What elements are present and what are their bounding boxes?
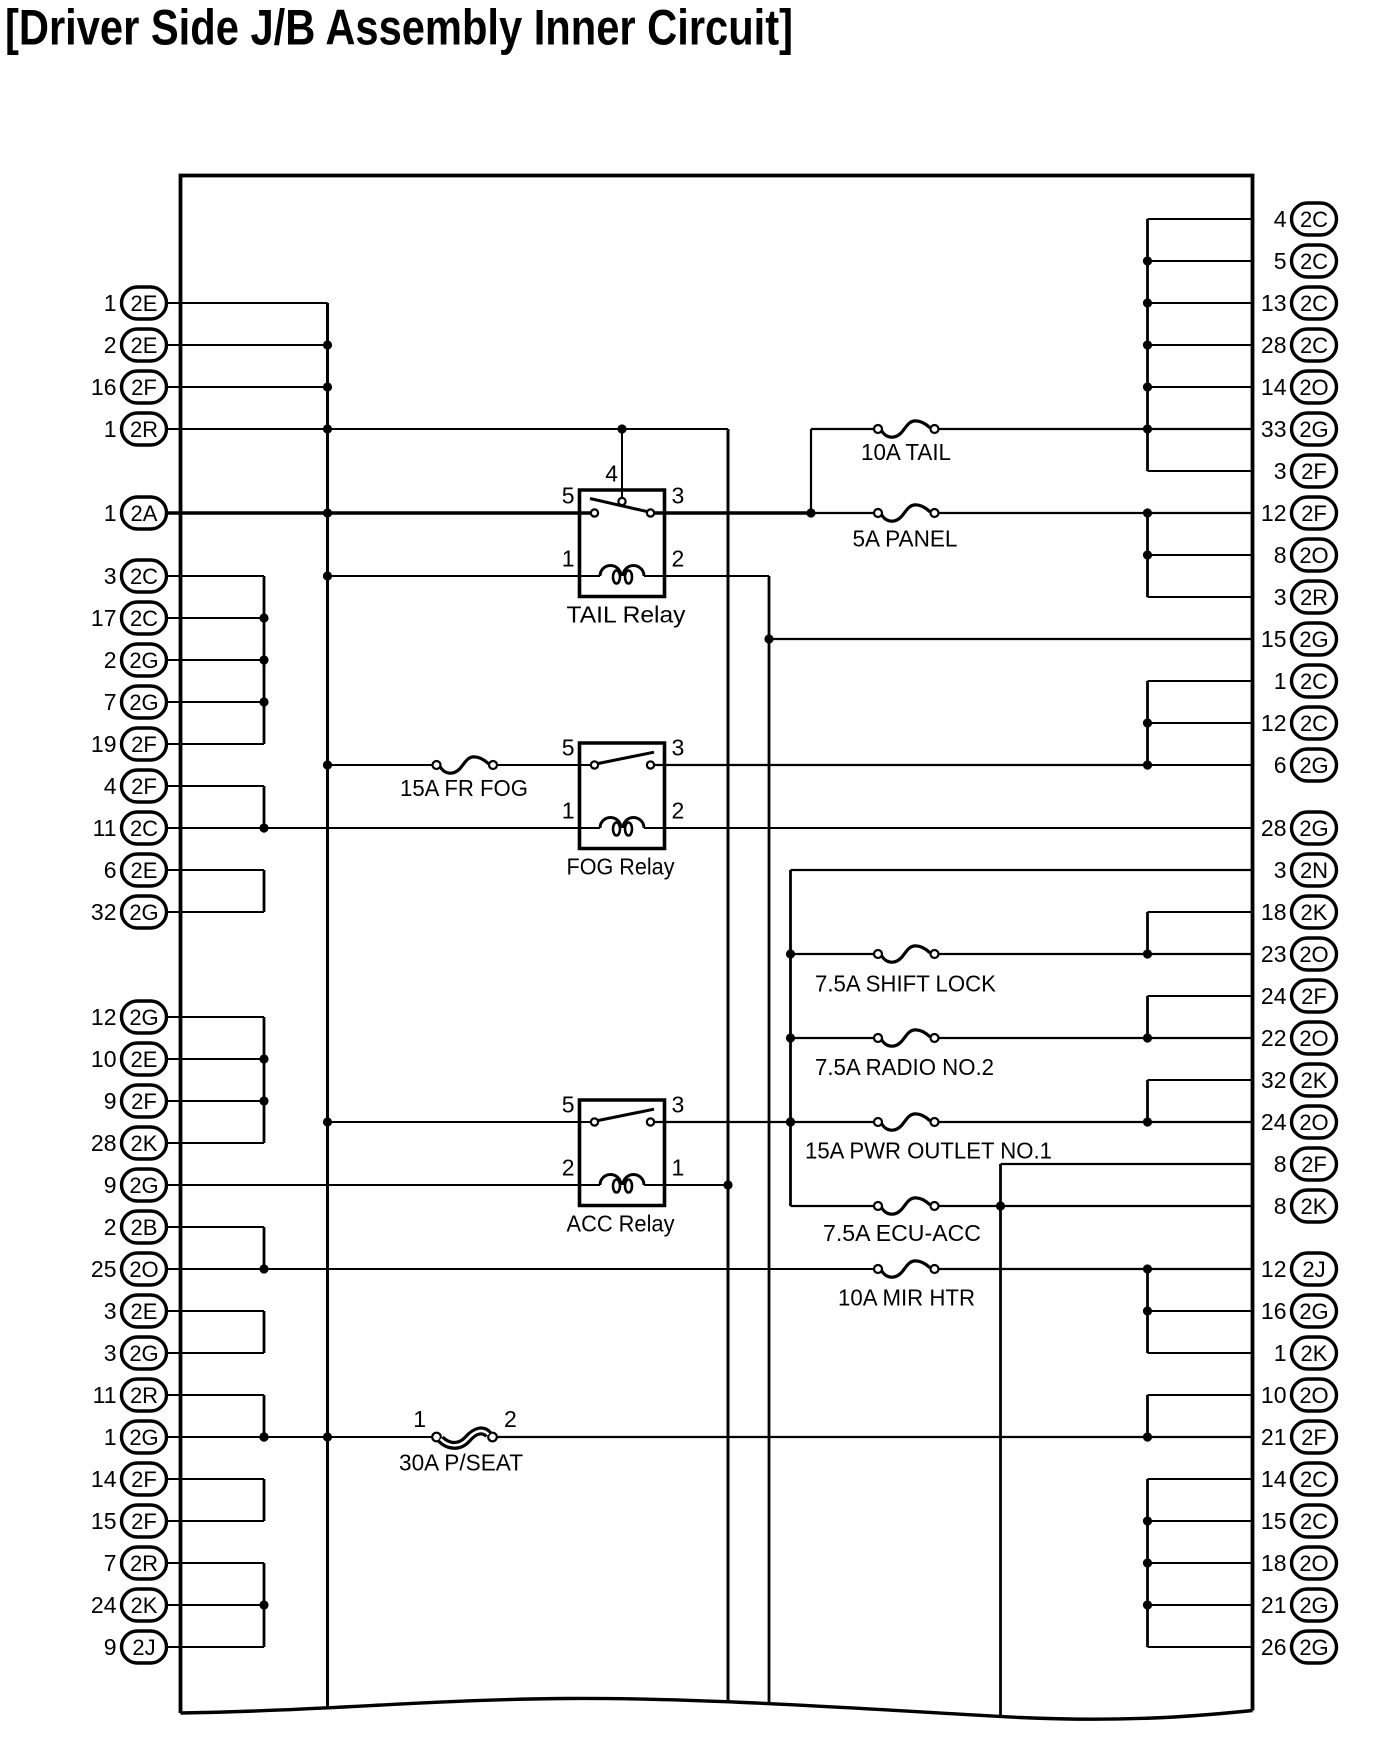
svg-text:2A: 2A	[131, 501, 158, 526]
svg-text:2G: 2G	[129, 690, 158, 715]
svg-text:1: 1	[1274, 668, 1287, 694]
svg-text:3: 3	[672, 735, 685, 761]
svg-text:2F: 2F	[131, 1509, 157, 1534]
svg-text:5: 5	[562, 1092, 575, 1118]
svg-text:33: 33	[1261, 416, 1287, 442]
svg-text:3: 3	[104, 1298, 117, 1324]
svg-text:2C: 2C	[1300, 1467, 1328, 1492]
svg-text:15: 15	[91, 1508, 117, 1534]
svg-text:2G: 2G	[129, 1005, 158, 1030]
svg-text:2G: 2G	[1299, 1299, 1328, 1324]
svg-text:15: 15	[1261, 626, 1287, 652]
svg-text:9: 9	[104, 1634, 117, 1660]
svg-text:1: 1	[1274, 1340, 1287, 1366]
svg-text:2O: 2O	[1299, 1551, 1328, 1576]
svg-text:1: 1	[672, 1155, 685, 1181]
svg-text:2R: 2R	[1300, 585, 1328, 610]
svg-text:1: 1	[104, 290, 117, 316]
svg-text:1: 1	[562, 798, 575, 824]
svg-text:7: 7	[104, 1550, 117, 1576]
svg-text:11: 11	[93, 815, 117, 841]
svg-text:8: 8	[1274, 542, 1287, 568]
svg-text:2: 2	[562, 1155, 575, 1181]
svg-text:2K: 2K	[131, 1131, 158, 1156]
svg-text:13: 13	[1261, 290, 1287, 316]
svg-text:2O: 2O	[129, 1257, 158, 1282]
svg-text:22: 22	[1261, 1025, 1287, 1051]
svg-text:6: 6	[1274, 752, 1287, 778]
svg-text:2C: 2C	[1300, 291, 1328, 316]
svg-text:2F: 2F	[131, 732, 157, 757]
svg-text:2O: 2O	[1299, 1383, 1328, 1408]
svg-text:2O: 2O	[1299, 375, 1328, 400]
svg-text:30A P/SEAT: 30A P/SEAT	[399, 1450, 523, 1476]
svg-text:2G: 2G	[1299, 417, 1328, 442]
svg-text:24: 24	[1261, 983, 1287, 1009]
svg-text:21: 21	[1261, 1592, 1287, 1618]
svg-text:2R: 2R	[130, 417, 158, 442]
svg-text:2E: 2E	[131, 291, 158, 316]
svg-text:[Driver Side J/B Assembly Inne: [Driver Side J/B Assembly Inner Circuit]	[5, 0, 793, 56]
svg-text:15A FR FOG: 15A FR FOG	[400, 775, 528, 801]
svg-text:24: 24	[91, 1592, 117, 1618]
svg-text:12: 12	[1261, 500, 1287, 526]
svg-text:2C: 2C	[1300, 333, 1328, 358]
svg-text:2C: 2C	[130, 816, 158, 841]
svg-text:2F: 2F	[1301, 984, 1327, 1009]
svg-text:18: 18	[1261, 1550, 1287, 1576]
svg-text:2O: 2O	[1299, 942, 1328, 967]
svg-text:12: 12	[91, 1004, 117, 1030]
svg-text:2G: 2G	[129, 648, 158, 673]
svg-text:24: 24	[1261, 1109, 1287, 1135]
svg-text:2J: 2J	[132, 1635, 155, 1660]
svg-text:2F: 2F	[1301, 459, 1327, 484]
svg-text:2O: 2O	[1299, 1110, 1328, 1135]
svg-text:2G: 2G	[1299, 1593, 1328, 1618]
svg-text:10A MIR HTR: 10A MIR HTR	[838, 1285, 975, 1311]
svg-text:3: 3	[672, 483, 685, 509]
svg-text:3: 3	[104, 563, 117, 589]
svg-text:1: 1	[104, 500, 117, 526]
svg-text:3: 3	[1274, 584, 1287, 610]
svg-text:8: 8	[1274, 1151, 1287, 1177]
svg-text:4: 4	[104, 773, 117, 799]
svg-text:2E: 2E	[131, 1299, 158, 1324]
svg-text:5A PANEL: 5A PANEL	[853, 526, 958, 552]
svg-text:2G: 2G	[129, 1425, 158, 1450]
svg-text:21: 21	[1261, 1424, 1287, 1450]
svg-text:2K: 2K	[1301, 1068, 1328, 1093]
svg-text:14: 14	[1261, 1466, 1287, 1492]
svg-text:2E: 2E	[131, 1047, 158, 1072]
svg-text:2G: 2G	[1299, 627, 1328, 652]
svg-text:14: 14	[91, 1466, 117, 1492]
svg-text:5: 5	[1274, 248, 1287, 274]
svg-text:2J: 2J	[1302, 1257, 1325, 1282]
svg-text:12: 12	[1261, 1256, 1287, 1282]
svg-text:26: 26	[1261, 1634, 1287, 1660]
svg-text:2: 2	[504, 1406, 517, 1432]
svg-text:2C: 2C	[1300, 1509, 1328, 1534]
svg-text:7.5A ECU-ACC: 7.5A ECU-ACC	[823, 1220, 981, 1246]
svg-text:2C: 2C	[130, 606, 158, 631]
svg-text:16: 16	[91, 374, 117, 400]
svg-text:2G: 2G	[1299, 1635, 1328, 1660]
svg-text:2: 2	[672, 546, 685, 572]
svg-text:3: 3	[672, 1092, 685, 1118]
svg-text:10: 10	[91, 1046, 117, 1072]
svg-text:28: 28	[1261, 815, 1287, 841]
svg-text:2C: 2C	[1300, 669, 1328, 694]
svg-text:25: 25	[91, 1256, 117, 1282]
svg-text:2B: 2B	[131, 1215, 158, 1240]
svg-text:2E: 2E	[131, 333, 158, 358]
svg-text:4: 4	[605, 460, 618, 486]
svg-text:2E: 2E	[131, 858, 158, 883]
svg-text:4: 4	[1274, 206, 1287, 232]
svg-text:28: 28	[91, 1130, 117, 1156]
svg-text:3: 3	[104, 1340, 117, 1366]
svg-text:3: 3	[1274, 857, 1287, 883]
svg-text:5: 5	[562, 483, 575, 509]
svg-text:8: 8	[1274, 1193, 1287, 1219]
svg-text:2F: 2F	[131, 774, 157, 799]
svg-text:23: 23	[1261, 941, 1287, 967]
svg-text:15A PWR OUTLET NO.1: 15A PWR OUTLET NO.1	[805, 1138, 1052, 1164]
svg-text:10: 10	[1261, 1382, 1287, 1408]
svg-text:9: 9	[104, 1088, 117, 1114]
svg-text:2F: 2F	[1301, 1152, 1327, 1177]
svg-text:9: 9	[104, 1172, 117, 1198]
svg-text:32: 32	[1261, 1067, 1287, 1093]
svg-text:2: 2	[104, 1214, 117, 1240]
svg-text:7.5A SHIFT LOCK: 7.5A SHIFT LOCK	[815, 971, 997, 997]
svg-text:2C: 2C	[130, 564, 158, 589]
svg-text:2: 2	[672, 798, 685, 824]
svg-text:10A TAIL: 10A TAIL	[861, 439, 951, 465]
svg-text:2K: 2K	[1301, 900, 1328, 925]
svg-text:1: 1	[104, 416, 117, 442]
svg-text:1: 1	[413, 1406, 426, 1432]
svg-text:2R: 2R	[130, 1383, 158, 1408]
svg-text:2F: 2F	[131, 1089, 157, 1114]
svg-text:2F: 2F	[1301, 501, 1327, 526]
svg-text:2G: 2G	[1299, 816, 1328, 841]
svg-text:11: 11	[93, 1382, 117, 1408]
svg-text:32: 32	[91, 899, 117, 925]
svg-text:1: 1	[562, 546, 575, 572]
svg-text:19: 19	[91, 731, 117, 757]
svg-text:2: 2	[104, 332, 117, 358]
svg-text:2C: 2C	[1300, 711, 1328, 736]
svg-text:2K: 2K	[1301, 1194, 1328, 1219]
svg-text:2R: 2R	[130, 1551, 158, 1576]
svg-text:15: 15	[1261, 1508, 1287, 1534]
svg-text:FOG Relay: FOG Relay	[567, 854, 675, 880]
svg-text:2K: 2K	[1301, 1341, 1328, 1366]
svg-text:2O: 2O	[1299, 1026, 1328, 1051]
svg-text:1: 1	[104, 1424, 117, 1450]
svg-text:12: 12	[1261, 710, 1287, 736]
svg-text:2G: 2G	[1299, 753, 1328, 778]
svg-text:28: 28	[1261, 332, 1287, 358]
svg-text:2: 2	[104, 647, 117, 673]
svg-text:7.5A RADIO NO.2: 7.5A RADIO NO.2	[815, 1054, 994, 1080]
svg-text:17: 17	[91, 605, 117, 631]
svg-text:ACC Relay: ACC Relay	[567, 1211, 675, 1237]
svg-text:2F: 2F	[131, 375, 157, 400]
svg-text:18: 18	[1261, 899, 1287, 925]
svg-text:6: 6	[104, 857, 117, 883]
svg-text:TAIL Relay: TAIL Relay	[567, 602, 687, 628]
svg-text:2O: 2O	[1299, 543, 1328, 568]
svg-text:2G: 2G	[129, 900, 158, 925]
svg-text:2K: 2K	[131, 1593, 158, 1618]
svg-text:2C: 2C	[1300, 207, 1328, 232]
svg-text:2N: 2N	[1300, 858, 1328, 883]
svg-text:2G: 2G	[129, 1173, 158, 1198]
svg-text:2G: 2G	[129, 1341, 158, 1366]
svg-text:2F: 2F	[131, 1467, 157, 1492]
svg-text:7: 7	[104, 689, 117, 715]
svg-text:5: 5	[562, 735, 575, 761]
svg-text:3: 3	[1274, 458, 1287, 484]
svg-text:2F: 2F	[1301, 1425, 1327, 1450]
svg-text:14: 14	[1261, 374, 1287, 400]
svg-text:2C: 2C	[1300, 249, 1328, 274]
svg-text:16: 16	[1261, 1298, 1287, 1324]
